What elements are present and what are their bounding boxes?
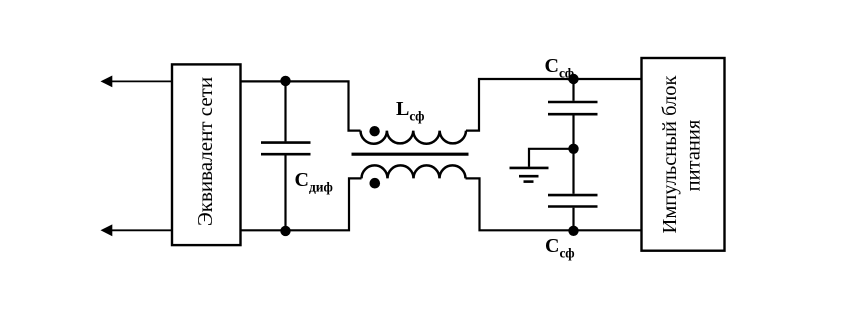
wire bottom-left from box to arrow bbox=[111, 229, 172, 231]
svg-text:Импульсный блок: Импульсный блок bbox=[659, 75, 681, 233]
capacitor Csf top plates bbox=[548, 101, 598, 104]
junction node top of Csf top bbox=[568, 74, 578, 84]
inductor core bar bbox=[352, 153, 469, 156]
capacitor Csf bottom leads bbox=[572, 149, 574, 194]
polarity dot bottom winding bbox=[370, 178, 381, 189]
svg-text:Ссф: Ссф bbox=[545, 235, 575, 261]
wire bottom from box to choke bbox=[241, 178, 362, 230]
capacitor Cdif vertical leads bbox=[284, 81, 286, 141]
svg-text:Ссф: Ссф bbox=[545, 55, 575, 81]
svg-text:Эквивалент сети: Эквивалент сети bbox=[193, 77, 217, 226]
capacitor Csf bottom plates bbox=[548, 194, 598, 197]
inductor L bottom winding bbox=[362, 165, 466, 178]
junction node bottom of Cdif bbox=[280, 226, 290, 236]
junction node bottom of Csf bottom bbox=[568, 226, 578, 236]
junction node top of Cdif bbox=[280, 76, 290, 86]
box "Эквивалент сети" bbox=[172, 64, 241, 245]
wire top from box to choke bbox=[241, 81, 361, 130]
wire bottom from choke to right bbox=[466, 178, 642, 230]
wire to ground bbox=[529, 149, 574, 167]
box "Импульсный блок питания" bbox=[642, 58, 725, 251]
capacitor Csf top leads bbox=[572, 79, 574, 101]
arrow top-left bbox=[101, 76, 113, 88]
svg-text:Сдиф: Сдиф bbox=[295, 169, 333, 195]
wire top from choke to right bbox=[466, 79, 642, 131]
capacitor Cdif plates bbox=[261, 141, 311, 144]
ground bbox=[510, 168, 549, 182]
inductor L top winding bbox=[361, 131, 467, 144]
junction node middle of Csf pair bbox=[568, 144, 578, 154]
svg-text:питания: питания bbox=[683, 119, 705, 191]
polarity dot top winding bbox=[369, 126, 379, 136]
wire top-left from box to arrow bbox=[111, 80, 172, 82]
svg-text:Lсф: Lсф bbox=[396, 98, 425, 124]
arrow bottom-left bbox=[101, 224, 113, 236]
